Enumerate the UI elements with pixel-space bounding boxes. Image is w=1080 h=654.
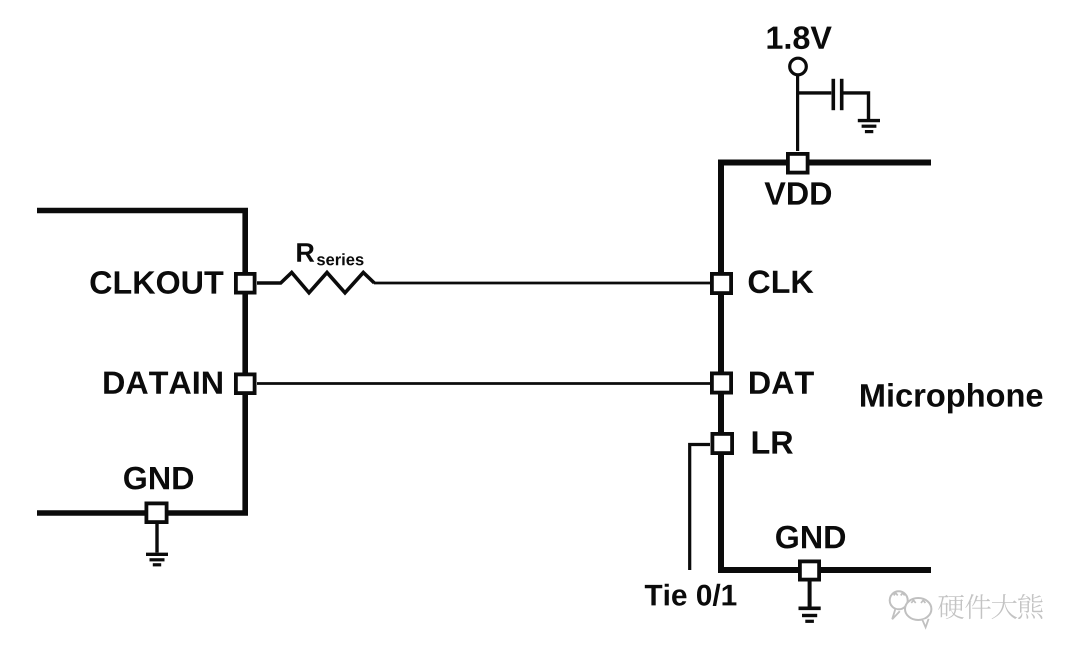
wire CLK net [374, 282, 710, 285]
label DAT [750, 372, 814, 394]
ground (capacitor) [858, 121, 880, 132]
host block outline [37, 211, 248, 514]
label Tie 0/1 [645, 584, 737, 606]
label Rseries [297, 243, 363, 265]
label 1.8V [768, 26, 832, 49]
pin VDD [788, 154, 808, 173]
wire DAT net [257, 382, 710, 385]
ground (host GND pin) [146, 524, 168, 565]
watermark logo bubbles [890, 591, 932, 627]
watermark text 硬件大熊 [938, 594, 1043, 619]
pin GND (host) [146, 503, 166, 522]
pin CLKOUT [236, 274, 255, 293]
label LR [753, 431, 793, 453]
pin DAT [712, 373, 731, 392]
label CLK [749, 270, 814, 293]
pin GND (microphone) [800, 561, 819, 579]
microphone block outline [718, 163, 931, 571]
wire capacitor to ground [844, 93, 869, 119]
pin DATAIN [236, 374, 255, 393]
pin CLK [712, 274, 731, 293]
label GND (microphone) [776, 526, 845, 549]
pin LR [712, 434, 732, 453]
label Microphone [861, 383, 1042, 413]
label GND (host) [124, 467, 193, 490]
resistor R_series [257, 273, 374, 293]
supply 1.8V terminal [790, 58, 807, 151]
wire LR tie [690, 445, 710, 571]
label CLKOUT [91, 271, 224, 294]
label VDD [765, 182, 832, 204]
wire supply to capacitor [798, 91, 832, 94]
capacitor C1 [833, 79, 841, 110]
ground (microphone GND pin) [799, 581, 821, 621]
label DATAIN [104, 372, 222, 394]
